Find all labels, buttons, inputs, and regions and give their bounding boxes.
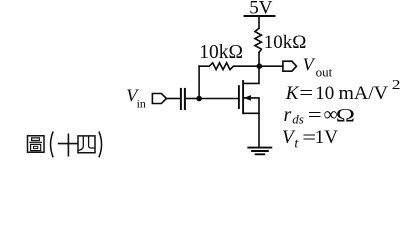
ground bar 3 (256, 153, 265, 155)
wire R1 to drain node (258, 53, 260, 67)
svg-text:10kΩ: 10kΩ (199, 42, 243, 63)
wire rail to R1 (258, 16, 260, 28)
input port symbol (152, 94, 166, 104)
MOSFET Q1 gate bar (238, 86, 240, 108)
wire input port to C1 (166, 98, 180, 100)
wire gate node to MOSFET gate (199, 98, 238, 100)
svg-text:=: = (308, 104, 322, 126)
svg-text:2: 2 (392, 78, 401, 93)
node gate junction (196, 96, 202, 102)
MOSFET Q1 body arrow (244, 95, 251, 101)
ground bar 1 (248, 147, 271, 149)
capacitor C1 plate left (180, 89, 182, 109)
figure caption glyph 四 (78, 136, 95, 153)
capacitor C1 plate right (184, 89, 186, 109)
MOSFET Q1 drain lead (244, 66, 259, 83)
figure caption close paren (99, 132, 101, 156)
svg-text:out: out (316, 65, 333, 80)
label rds = infinity ohm (284, 104, 355, 127)
resistor R2 (feedback 10kΩ) (199, 63, 259, 70)
figure caption open paren (51, 132, 53, 156)
label K = 10 mA/V^2 (285, 78, 401, 104)
MOSFET Q1 source lead (244, 113, 259, 147)
resistor R1 (drain load) (255, 28, 262, 52)
ground bar 2 (252, 150, 268, 152)
MOSFET Q1 channel bar (242, 81, 244, 113)
figure caption glyph 十 (59, 134, 78, 155)
wire drain node to output port (259, 65, 283, 67)
svg-text:10kΩ: 10kΩ (264, 32, 307, 53)
svg-text:in: in (137, 96, 146, 110)
wire gate node up to R2 (198, 66, 200, 98)
output port symbol (283, 61, 297, 71)
svg-text:=: = (302, 126, 316, 148)
figure caption glyph 圖 (28, 136, 45, 153)
svg-text:Ω: Ω (336, 105, 355, 126)
MOSFET Q1 body lead (244, 98, 259, 113)
power rail bar (245, 15, 275, 17)
svg-text:=: = (299, 82, 313, 104)
wire C1 to gate node (185, 98, 199, 100)
node drain junction (257, 63, 263, 69)
svg-text:V: V (303, 55, 316, 75)
label Vt = 1V (282, 126, 338, 152)
